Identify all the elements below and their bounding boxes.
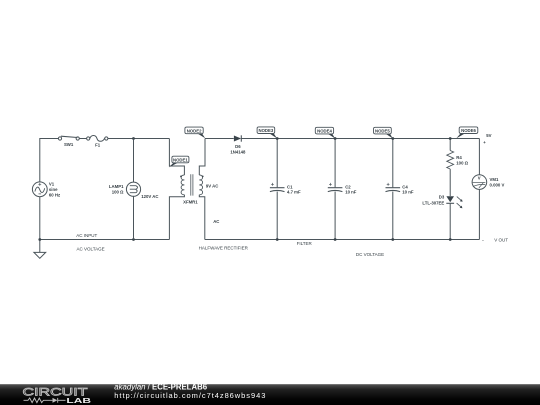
- svg-text:XFMR1: XFMR1: [183, 200, 198, 205]
- capacitor C2: [328, 183, 343, 192]
- svg-text:NODE4: NODE4: [317, 129, 332, 134]
- wire LED to bottom rail: [449, 203, 451, 239]
- capacitor C1: [270, 183, 285, 192]
- wire primary drop from top rail to XFMR1: [169, 139, 184, 176]
- ground: [34, 240, 46, 259]
- svg-text:V1: V1: [49, 182, 55, 187]
- wire secondary return to bottom rail: [199, 195, 205, 240]
- junction dot bottom C2: [334, 238, 337, 241]
- CircuitLab logo resistor-diode glyph: [24, 398, 66, 403]
- svg-text:-: -: [482, 237, 484, 242]
- svg-text:D3: D3: [439, 194, 445, 199]
- node label NODE1: [169, 156, 189, 167]
- wire top rail left from V1 corner to SW1: [40, 139, 58, 182]
- svg-text:0.000 V: 0.000 V: [490, 182, 505, 187]
- svg-text:V: V: [478, 176, 481, 181]
- LED D3: [446, 196, 462, 208]
- fuse F1: [87, 135, 108, 141]
- resistor R4: [447, 151, 454, 170]
- node label NODE4: [315, 127, 335, 138]
- label V1 value: [49, 182, 60, 198]
- wire bottom rail right segment: [205, 239, 480, 241]
- AC sine source V1: [32, 182, 47, 197]
- node label NODE5: [374, 127, 393, 138]
- svg-text:60 Hz: 60 Hz: [49, 193, 60, 198]
- svg-text:C4: C4: [402, 184, 408, 189]
- capacitor C4: [386, 183, 401, 192]
- label LAMP1 value: [109, 184, 124, 195]
- svg-text:LAMP1: LAMP1: [109, 184, 124, 189]
- junction dot top R4: [449, 137, 452, 140]
- svg-text:10 nF: 10 nF: [402, 190, 414, 195]
- node junction dot at ground: [38, 238, 41, 241]
- wire R4 branch top: [449, 139, 451, 151]
- label C4 value: [402, 184, 414, 194]
- svg-text:1N4148: 1N4148: [230, 149, 246, 154]
- diode D6: [234, 135, 241, 141]
- svg-text:4.7 mF: 4.7 mF: [287, 190, 301, 195]
- node junction dot top of lamp: [132, 137, 135, 140]
- wire between SW1 and F1: [79, 138, 86, 140]
- svg-text:NODE6: NODE6: [461, 128, 476, 133]
- svg-text:AC INPUT: AC INPUT: [76, 233, 97, 238]
- lamp LAMP1: [126, 182, 140, 196]
- svg-text:DC VOLTAGE: DC VOLTAGE: [356, 252, 384, 257]
- junction dot top C1: [276, 137, 279, 140]
- svg-text:CIRCUIT: CIRCUIT: [23, 387, 88, 399]
- svg-text:http://circuitlab.com/c7t4z86w: http://circuitlab.com/c7t4z86wbs943: [114, 391, 266, 400]
- wire R4 to LED: [449, 169, 451, 196]
- label D6 value: [230, 144, 246, 154]
- wire top rail from diode to VM corner: [241, 138, 479, 140]
- svg-text:+: +: [483, 140, 486, 145]
- svg-text:sine: sine: [49, 187, 58, 192]
- wire top rail from F1 to primary corner: [108, 138, 169, 140]
- wire VM to bottom rail: [478, 189, 480, 239]
- svg-text:AC: AC: [213, 219, 219, 224]
- label D3 value: [422, 194, 444, 205]
- wire C2 branch: [334, 139, 336, 240]
- junction dot top C2: [334, 137, 337, 140]
- svg-text:NODE5: NODE5: [375, 129, 390, 134]
- svg-text:C1: C1: [287, 184, 293, 189]
- svg-text:F1: F1: [95, 143, 101, 148]
- svg-text:LAB: LAB: [66, 398, 91, 405]
- junction dot top C4: [391, 137, 394, 140]
- svg-text:120V AC: 120V AC: [141, 194, 158, 199]
- svg-text:SW1: SW1: [64, 142, 74, 147]
- wire VM riser: [478, 139, 480, 175]
- svg-text:HALFWAVE RECTIFIER: HALFWAVE RECTIFIER: [199, 245, 249, 250]
- switch SW1: [58, 136, 79, 140]
- label C1 value: [287, 184, 301, 194]
- wire C1 branch: [276, 139, 278, 240]
- junction dot bottom LED: [449, 238, 452, 241]
- svg-text:10 nF: 10 nF: [345, 190, 357, 195]
- footer bar: [0, 384, 540, 405]
- wire secondary top to NODE2 riser: [199, 139, 205, 176]
- svg-text:C2: C2: [345, 184, 351, 189]
- svg-text:FILTER: FILTER: [297, 241, 313, 246]
- svg-text:NODE1: NODE1: [173, 158, 188, 163]
- label VM1 value: [490, 177, 505, 187]
- wire top rail NODE2 to diode: [205, 138, 234, 140]
- svg-text:V OUT: V OUT: [494, 238, 508, 243]
- transformer XFMR1: [180, 174, 204, 195]
- wire lamp branch bottom: [133, 196, 135, 239]
- svg-text:R4: R4: [456, 155, 462, 160]
- svg-text:100 Ω: 100 Ω: [456, 160, 468, 165]
- junction dot bottom C1: [276, 238, 279, 241]
- node junction dot bottom of lamp: [132, 238, 135, 241]
- wire V1 branch vertical + bottom left rail: [40, 197, 170, 240]
- voltmeter VM1: [472, 175, 487, 190]
- label R4 value: [456, 155, 468, 165]
- svg-text:LTL-307EE: LTL-307EE: [422, 201, 444, 206]
- node label NODE6: [456, 127, 478, 138]
- svg-text:9V AC: 9V AC: [206, 183, 219, 188]
- svg-text:100 Ω: 100 Ω: [112, 190, 124, 195]
- node label NODE2: [185, 127, 205, 138]
- svg-text:5V: 5V: [486, 133, 491, 138]
- wire lamp branch top: [133, 139, 135, 183]
- node label NODE3: [257, 127, 277, 138]
- wire C4 branch: [392, 139, 394, 240]
- label C2 value: [345, 184, 357, 194]
- svg-text:NODE3: NODE3: [258, 128, 273, 133]
- svg-text:D6: D6: [235, 144, 241, 149]
- svg-text:AC VOLTAGE: AC VOLTAGE: [77, 247, 105, 252]
- junction dot bottom C4: [391, 238, 394, 241]
- wire primary return to bottom rail: [169, 195, 184, 240]
- svg-text:VM1: VM1: [490, 177, 499, 182]
- svg-text:NODE2: NODE2: [187, 128, 202, 133]
